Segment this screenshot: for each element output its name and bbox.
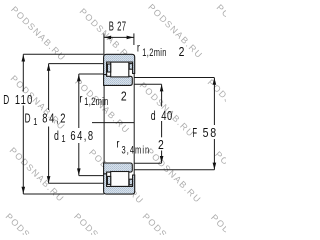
dimension D1: top extension line [49, 63, 104, 65]
svg-text:r: r [79, 93, 83, 105]
dimension F: dimension line lower segment [213, 139, 215, 170]
dimension d: top extension line [134, 83, 161, 85]
cage bar left, top section [107, 64, 110, 72]
dimension D1: dimension line lower segment [48, 127, 50, 184]
svg-text:27: 27 [117, 21, 126, 34]
svg-text:1: 1 [61, 133, 65, 144]
svg-text:2: 2 [179, 45, 185, 59]
cage bar right, top section [129, 64, 132, 70]
svg-text:40: 40 [161, 110, 173, 124]
dimension D: bottom arrowhead [22, 187, 26, 194]
dimension D: dimension line upper segment [22, 54, 24, 91]
dimension F: dimension line upper segment [213, 78, 215, 125]
svg-text:1,2min: 1,2min [84, 94, 108, 107]
svg-text:58: 58 [203, 126, 218, 140]
roller, top section [111, 62, 129, 77]
inner ring, top section [104, 75, 133, 86]
dimension D1: bottom extension line [49, 182, 104, 184]
dimension D1: top arrowhead [47, 64, 51, 71]
svg-text:D: D [3, 93, 9, 107]
dimension d1: top arrowhead [77, 74, 81, 81]
dimension F: bottom arrowhead [213, 163, 217, 170]
cage bar right, bottom section [129, 179, 132, 185]
dimension F: bottom extension line [134, 169, 214, 171]
roller, bottom section [111, 172, 129, 187]
dimension d: dimension line lower segment [161, 151, 163, 164]
svg-text:1,2min: 1,2min [142, 45, 166, 58]
dimension B: right arrowhead [127, 36, 134, 40]
svg-text:1: 1 [33, 116, 37, 127]
svg-text:B: B [109, 21, 114, 34]
dimension d1: bottom extension line [79, 175, 104, 177]
cage bar left, bottom section [107, 176, 110, 184]
dimension d: dimension line upper segment [161, 84, 163, 106]
inner ring, bottom section [104, 163, 133, 174]
svg-text:F: F [192, 128, 197, 141]
svg-text:110: 110 [15, 94, 34, 108]
bore wall left [103, 85, 105, 163]
svg-text:84,2: 84,2 [42, 112, 67, 126]
outer ring, bottom section [104, 174, 135, 194]
svg-text:2: 2 [158, 138, 164, 152]
dimension d1: bottom arrowhead [77, 168, 81, 175]
dimension d1: dimension line upper segment [78, 74, 80, 128]
svg-text:D: D [25, 112, 31, 126]
dimension B: left arrowhead [104, 36, 111, 40]
svg-text:64,8: 64,8 [70, 130, 94, 144]
dimension D1: dimension line upper segment [48, 64, 50, 110]
dimension D: top extension line [23, 53, 104, 55]
svg-text:r: r [116, 138, 120, 150]
dimension B: dimension line [104, 36, 134, 38]
bore centerline [92, 122, 134, 124]
dimension d: top arrowhead [160, 84, 164, 91]
dimension F: top arrowhead [213, 78, 217, 85]
dimension d: bottom extension line [134, 162, 161, 164]
svg-text:3,4min: 3,4min [122, 143, 151, 156]
svg-text:d: d [54, 129, 59, 143]
svg-text:d: d [151, 109, 156, 123]
dimension F: top extension line [134, 77, 214, 79]
bore wall right [133, 73, 135, 175]
dimension B: left extension line [103, 33, 105, 54]
dimension D1: bottom arrowhead [47, 176, 51, 183]
dimension d1: top extension line [79, 73, 104, 75]
svg-text:r: r [137, 43, 141, 55]
dimension D: top arrowhead [22, 55, 26, 62]
dimension d: bottom arrowhead [160, 156, 164, 163]
svg-text:2: 2 [121, 89, 127, 103]
dimension D: dimension line lower segment [22, 106, 24, 195]
dimension d1: dimension line lower segment [78, 143, 80, 176]
dimension d: dimension line middle segment [161, 121, 163, 137]
outer ring, top section [104, 54, 135, 74]
dimension B: right extension line [133, 33, 135, 45]
dimension D: bottom extension line [23, 193, 104, 195]
